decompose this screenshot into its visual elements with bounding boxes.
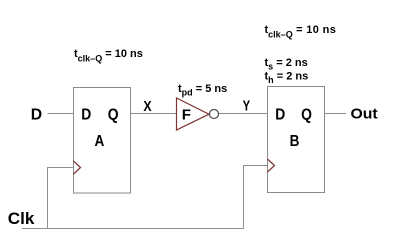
svg-text:A: A <box>95 133 105 150</box>
svg-text:B: B <box>290 133 300 150</box>
svg-text:X: X <box>143 98 151 115</box>
svg-text:D: D <box>81 107 91 124</box>
svg-text:D: D <box>31 107 42 124</box>
svg-text:Clk: Clk <box>8 210 35 228</box>
svg-text:D: D <box>275 107 285 124</box>
svg-text:Q: Q <box>301 107 312 124</box>
svg-text:F: F <box>182 107 191 124</box>
svg-text:Out: Out <box>351 106 378 123</box>
svg-text:Y: Y <box>243 99 251 115</box>
svg-text:Q: Q <box>108 107 119 124</box>
